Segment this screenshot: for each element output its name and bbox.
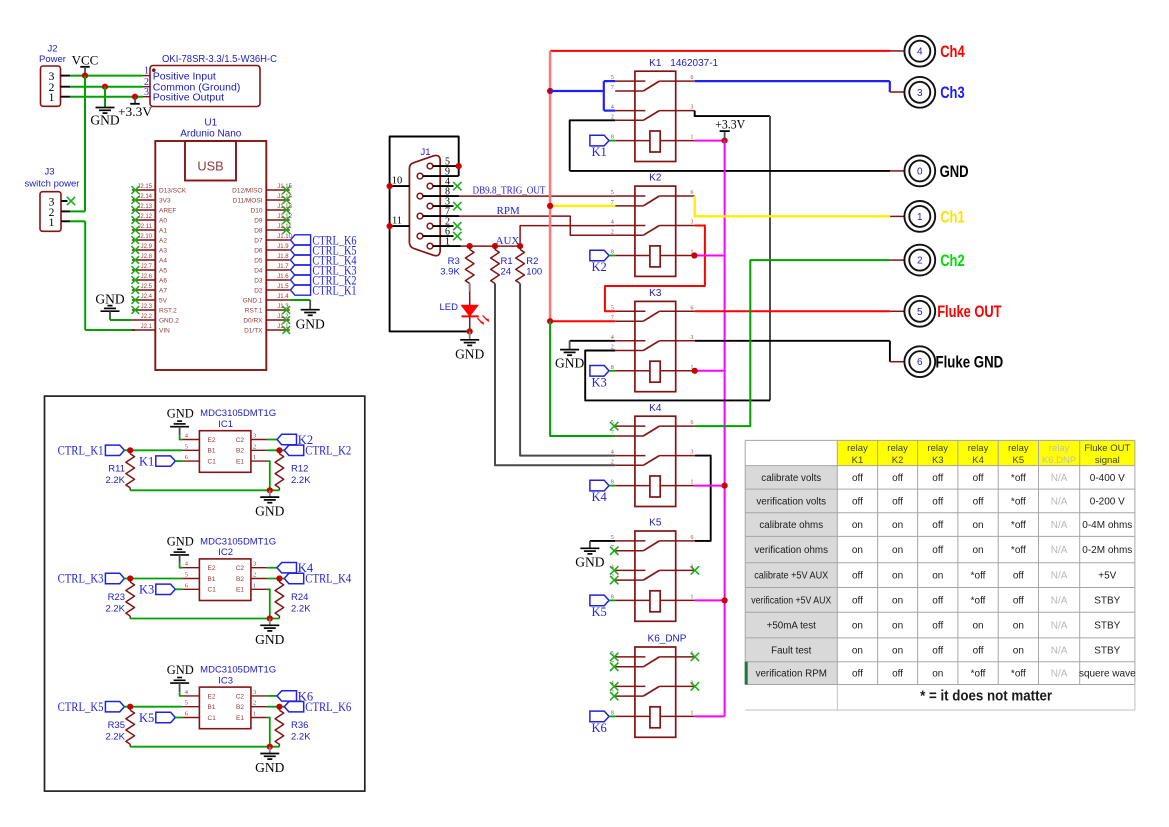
- svg-text:K2: K2: [592, 260, 607, 274]
- svg-text:3: 3: [253, 561, 256, 568]
- svg-text:3.9K: 3.9K: [440, 267, 460, 278]
- svg-text:on: on: [972, 545, 983, 556]
- wire K5 to IC3 pin 6: [175, 717, 182, 719]
- svg-text:1: 1: [445, 236, 450, 247]
- wire K6 pin 1 to +3.3V rail: [695, 715, 725, 717]
- svg-text:CTRL_K5: CTRL_K5: [58, 700, 104, 714]
- local label K6 at relay coil: [590, 711, 615, 735]
- no-connect X on K5 pin 2: [610, 576, 618, 584]
- svg-text:1: 1: [253, 582, 256, 589]
- svg-text:K6_DNP: K6_DNP: [648, 634, 687, 645]
- output connector 5 Fluke OUT: [904, 296, 1001, 327]
- svg-text:6: 6: [691, 305, 694, 311]
- svg-text:K1: K1: [592, 145, 607, 159]
- svg-text:J1.8: J1.8: [277, 254, 289, 260]
- wire IC1 pin 3 to K2: [267, 439, 277, 441]
- resistor R2 100: [516, 246, 542, 283]
- output connector 0 GND: [904, 156, 968, 187]
- U1 right pin J1.15 D12/MISO: [232, 184, 292, 195]
- no-connect X on K6 pin 7: [610, 663, 618, 671]
- ground symbol left of U1 (GND.2): [95, 291, 124, 320]
- svg-text:B2: B2: [236, 576, 244, 583]
- svg-text:C1: C1: [208, 459, 217, 466]
- relay K6_DNP box: [611, 634, 695, 738]
- svg-text:relay: relay: [887, 443, 908, 454]
- wire Ch4 net vertical rail: [549, 51, 552, 321]
- svg-text:on: on: [852, 621, 863, 632]
- svg-text:*off: *off: [1011, 496, 1026, 507]
- svg-text:4: 4: [611, 450, 614, 456]
- svg-text:Ardunio Nano: Ardunio Nano: [180, 129, 242, 140]
- svg-text:4: 4: [611, 105, 614, 111]
- svg-text:E2: E2: [208, 693, 216, 700]
- resistor R12 2.2K: [275, 450, 311, 490]
- wire J2 pin stubs: [61, 76, 71, 97]
- svg-text:verification volts: verification volts: [756, 496, 826, 507]
- ground symbol right of U1 (GND.1): [296, 300, 325, 332]
- svg-text:0-2M ohms: 0-2M ohms: [1082, 545, 1132, 556]
- svg-text:5V: 5V: [159, 297, 168, 304]
- svg-text:on: on: [972, 621, 983, 632]
- svg-text:24: 24: [501, 267, 512, 278]
- svg-text:STBY: STBY: [1094, 595, 1120, 606]
- U1 right pin J1.7 D4: [254, 264, 290, 275]
- svg-text:A4: A4: [159, 257, 167, 264]
- J1 pin 8: [417, 186, 459, 199]
- wire IC3 ground rail: [130, 746, 279, 748]
- ic IC3 MDC3105DMT1G: [182, 665, 276, 729]
- svg-text:C1: C1: [208, 587, 217, 594]
- svg-text:4: 4: [917, 47, 923, 58]
- svg-text:5: 5: [611, 190, 614, 196]
- junction CTRL_K3 node: [127, 575, 133, 581]
- svg-text:5: 5: [917, 307, 923, 318]
- svg-text:USB: USB: [197, 159, 223, 174]
- svg-text:on: on: [972, 520, 983, 531]
- power symbol +3.3V at J2: [118, 97, 152, 119]
- no-connect X on K4 pin 5: [610, 422, 618, 430]
- U1 right pin J1.1 D1/TX: [244, 324, 290, 335]
- svg-text:verification +5V AUX: verification +5V AUX: [751, 595, 831, 606]
- wire IC1 ground rail: [130, 489, 279, 491]
- wire R2 bottom to K4 pin 4: [520, 284, 615, 456]
- svg-text:C2: C2: [236, 693, 245, 700]
- resistor R35 2.2K: [105, 707, 134, 747]
- svg-text:11: 11: [392, 215, 402, 226]
- local label K2 at relay coil: [590, 250, 615, 274]
- svg-text:K4: K4: [972, 455, 984, 466]
- svg-text:+3.3V: +3.3V: [118, 105, 152, 119]
- svg-text:K3: K3: [139, 583, 154, 597]
- svg-text:2: 2: [253, 443, 256, 450]
- U1 left pin J2.10 A2: [132, 234, 168, 245]
- U1 left pin J2.9 A3: [132, 244, 168, 255]
- svg-text:verification ohms: verification ohms: [754, 545, 828, 556]
- svg-text:relay: relay: [1049, 443, 1070, 454]
- local label K1 at relay coil: [590, 135, 615, 159]
- svg-text:B1: B1: [208, 576, 216, 583]
- svg-text:J1.10: J1.10: [277, 234, 292, 240]
- svg-text:Ch1: Ch1: [940, 208, 965, 226]
- svg-text:A6: A6: [159, 277, 167, 284]
- svg-text:U1: U1: [204, 118, 217, 129]
- global label CTRL_K4 at U1: [290, 253, 357, 267]
- svg-text:D9: D9: [254, 217, 263, 224]
- svg-text:Fluke OUT: Fluke OUT: [937, 303, 1001, 321]
- svg-text:off: off: [892, 669, 903, 680]
- no-connect X on K6 pin 2: [610, 692, 618, 700]
- svg-text:signal: signal: [1095, 455, 1120, 466]
- J1 pin 5: [427, 156, 459, 169]
- wire K1 pin 2 to GND output: [570, 120, 616, 171]
- svg-text:relay: relay: [1008, 443, 1029, 454]
- svg-text:GND: GND: [575, 555, 604, 570]
- svg-text:N/A: N/A: [1051, 496, 1068, 507]
- wire K1 pin 1 to +3.3V: [695, 140, 725, 142]
- svg-text:K5: K5: [592, 605, 607, 619]
- relay K5 box: [611, 518, 695, 622]
- wire AUX from J1 pin 1 to K2 pin 4: [461, 226, 615, 247]
- svg-text:J1.4: J1.4: [277, 294, 289, 300]
- local label K3 at relay coil: [590, 366, 615, 390]
- svg-text:5: 5: [185, 443, 188, 450]
- junction CTRL_K2 node: [276, 447, 282, 453]
- svg-text:RST.1: RST.1: [245, 307, 263, 314]
- svg-text:C2: C2: [236, 437, 245, 444]
- svg-text:1: 1: [691, 711, 694, 717]
- U1 right pin J1.5 D2: [254, 284, 290, 295]
- svg-text:relay: relay: [968, 443, 989, 454]
- ic IC2 MDC3105DMT1G: [182, 536, 276, 600]
- J1 pin 9: [417, 166, 459, 179]
- svg-text:Ch4: Ch4: [940, 43, 965, 61]
- U1 right pin J1.3 RST.1: [245, 304, 290, 315]
- svg-text:J2.6: J2.6: [141, 274, 153, 280]
- svg-text:LED: LED: [440, 302, 459, 313]
- svg-text:4: 4: [611, 220, 614, 226]
- svg-text:D4: D4: [254, 267, 263, 274]
- wire CTRL_K5 to IC3 pin 5: [124, 706, 182, 708]
- U1 right pin J1.8 D5: [254, 254, 290, 265]
- svg-text:6: 6: [691, 190, 694, 196]
- svg-text:*off: *off: [1011, 545, 1026, 556]
- wire IC2 ground rail: [130, 618, 279, 620]
- U1 left pin J2.14 3V3: [132, 194, 171, 205]
- svg-text:IC2: IC2: [218, 547, 233, 558]
- wire J1 shell ground loop: [390, 137, 470, 332]
- svg-text:J1: J1: [420, 147, 430, 158]
- svg-text:K3: K3: [649, 288, 662, 299]
- svg-text:3V3: 3V3: [159, 197, 171, 204]
- svg-text:6: 6: [185, 582, 188, 589]
- svg-text:RPM: RPM: [497, 205, 520, 217]
- svg-text:on: on: [892, 545, 903, 556]
- U1 right pin J1.13 D10: [251, 204, 293, 215]
- junction K2 pin 1: [691, 252, 697, 258]
- svg-text:CTRL_K1: CTRL_K1: [58, 444, 104, 458]
- svg-text:N/A: N/A: [1051, 621, 1068, 632]
- wire ground to IC3 pin 4: [180, 683, 183, 696]
- junction AUX R3: [467, 243, 473, 249]
- svg-text:Ch3: Ch3: [940, 84, 965, 102]
- svg-text:Ch2: Ch2: [940, 252, 965, 270]
- wire green K3 junction down to K4 pin 7: [550, 321, 615, 436]
- wire IC1 pin 2 to CTRL_K2: [267, 449, 284, 451]
- junction CTRL_K5 node: [127, 704, 133, 710]
- svg-text:K1: K1: [139, 455, 154, 469]
- svg-text:off: off: [852, 473, 863, 484]
- U1 left pin J2.15 D13/SCK: [132, 184, 187, 195]
- U1 right pin J1.6 D3: [254, 274, 290, 285]
- ground symbol below IC2: [255, 619, 284, 647]
- U1 left pin J2.12 A0: [132, 214, 168, 225]
- junction GND at J2 pin 2: [102, 84, 108, 90]
- svg-text:E2: E2: [208, 437, 216, 444]
- svg-text:Fault test: Fault test: [771, 645, 812, 656]
- svg-text:2.2K: 2.2K: [291, 603, 311, 614]
- svg-text:OKI-78SR-3.3/1.5-W36H-C: OKI-78SR-3.3/1.5-W36H-C: [162, 54, 277, 65]
- svg-text:off: off: [932, 595, 943, 606]
- svg-text:VCC: VCC: [72, 52, 99, 67]
- svg-text:B2: B2: [236, 704, 244, 711]
- resistor R11 2.2K: [105, 450, 134, 490]
- svg-text:K6: K6: [592, 721, 607, 735]
- wire K2 pin 6 to output Ch1: [695, 196, 905, 216]
- svg-text:D10: D10: [251, 207, 263, 214]
- svg-text:Positive Output: Positive Output: [153, 91, 224, 103]
- junction J1 pin11: [387, 223, 393, 229]
- svg-text:AREF: AREF: [159, 207, 176, 214]
- wire K5 pin 5 to ground: [590, 540, 615, 542]
- wire CTRL_K3 to IC2 pin 5: [124, 578, 182, 580]
- table header row: [847, 443, 1130, 466]
- junction +3.3V rail top: [722, 138, 728, 144]
- svg-text:STBY: STBY: [1094, 621, 1120, 632]
- resistor R36 2.2K: [275, 707, 311, 747]
- svg-text:IC1: IC1: [218, 419, 233, 430]
- svg-text:D12/MISO: D12/MISO: [232, 187, 262, 194]
- svg-text:J3: J3: [44, 167, 54, 178]
- U1 left pin J2.8 A4: [132, 254, 168, 265]
- svg-text:E1: E1: [236, 459, 244, 466]
- junction AUX R1: [492, 243, 498, 249]
- svg-text:GND: GND: [167, 535, 194, 549]
- svg-text:J2.4: J2.4: [141, 294, 153, 300]
- svg-text:1: 1: [144, 66, 149, 77]
- table green highlight border: [745, 662, 748, 685]
- U1 left pin J2.4 5V: [132, 294, 168, 305]
- J1 pin 3: [427, 196, 461, 210]
- svg-text:relay: relay: [927, 443, 948, 454]
- svg-text:J2.8: J2.8: [141, 254, 153, 260]
- svg-text:GND: GND: [940, 163, 969, 181]
- svg-text:on: on: [932, 571, 943, 582]
- local label K2: [277, 433, 313, 447]
- svg-text:MDC3105DMT1G: MDC3105DMT1G: [200, 536, 276, 547]
- U1 left pin J2.2 GND.2: [132, 314, 179, 325]
- no-connect X on K6 pin 3: [691, 682, 699, 690]
- resistor R1 24: [491, 246, 513, 283]
- relay state table: [745, 440, 1135, 710]
- wire DB9.8_TRIG_OUT to K2 pin 5: [459, 195, 616, 197]
- wire ground to IC1 pin 4: [180, 427, 183, 440]
- junction IC2 ground rail: [267, 615, 273, 621]
- svg-text:off: off: [973, 473, 984, 484]
- connector J2 Power: [39, 44, 66, 107]
- ground symbol above IC2: [167, 535, 194, 555]
- global label CTRL_K1 at U1: [290, 283, 356, 297]
- svg-text:off: off: [1013, 595, 1024, 606]
- svg-text:J2.2: J2.2: [141, 314, 153, 320]
- svg-text:A5: A5: [159, 267, 167, 274]
- no-connect X on J3 pin 3: [67, 197, 75, 205]
- no-connect X on K6 pin 6: [691, 653, 699, 661]
- svg-text:GND: GND: [167, 407, 194, 421]
- svg-text:N/A: N/A: [1051, 645, 1068, 656]
- svg-text:K2: K2: [892, 455, 904, 466]
- connector J1 DB9: [409, 147, 440, 256]
- svg-text:relay: relay: [847, 443, 868, 454]
- svg-text:GND: GND: [455, 347, 484, 362]
- junction K5 pin 1 at rail: [722, 597, 728, 603]
- svg-text:GND: GND: [90, 113, 119, 128]
- svg-text:off: off: [932, 645, 943, 656]
- relay K2 box: [611, 173, 695, 277]
- J1 pin 1: [427, 236, 461, 249]
- U1 right pin J1.12 D9: [254, 214, 292, 225]
- svg-text:2.2K: 2.2K: [105, 603, 125, 614]
- svg-text:A2: A2: [159, 237, 167, 244]
- wire IC3 pin 1 to ground rail: [267, 718, 270, 747]
- output connector 2 Ch2: [904, 245, 964, 276]
- global label CTRL_K6 at U1: [290, 233, 356, 247]
- svg-text:1: 1: [49, 92, 55, 104]
- wire K2 pin 1 to +3.3V rail: [695, 255, 725, 257]
- global label CTRL_K2: [284, 444, 351, 458]
- ic IC1 MDC3105DMT1G: [182, 408, 276, 472]
- U1 right pin J1.14 D11/MOSI: [233, 194, 293, 205]
- wire K2 pin 3 to K3 pin 5: [605, 226, 705, 312]
- junction IC1 ground rail: [267, 487, 273, 493]
- svg-text:* = it does not matter: * = it does not matter: [920, 688, 1052, 705]
- svg-text:K4: K4: [649, 403, 662, 414]
- svg-text:N/A: N/A: [1051, 545, 1068, 556]
- wire CTRL_K1 to IC1 pin 5: [124, 449, 182, 451]
- wire K3 to IC2 pin 6: [175, 588, 182, 590]
- svg-text:1: 1: [691, 480, 694, 486]
- svg-text:1: 1: [253, 711, 256, 718]
- svg-text:3: 3: [253, 433, 256, 440]
- svg-text:DB9.8_TRIG_OUT: DB9.8_TRIG_OUT: [473, 186, 546, 197]
- svg-text:1462037-1: 1462037-1: [670, 58, 718, 69]
- svg-text:B1: B1: [208, 704, 216, 711]
- svg-text:off: off: [932, 621, 943, 632]
- ground symbol below IC1: [255, 490, 284, 518]
- svg-text:K3: K3: [932, 455, 944, 466]
- junction CTRL_K6 node: [276, 704, 282, 710]
- wire K1 pin 6 to output Ch3: [695, 81, 905, 92]
- no-connect X on K5 pin 3: [691, 566, 699, 574]
- svg-text:J2.5: J2.5: [141, 284, 153, 290]
- svg-text:J1.9: J1.9: [277, 244, 289, 250]
- svg-text:3: 3: [917, 88, 923, 99]
- svg-text:D7: D7: [254, 237, 263, 244]
- wire K4 pin 6 to output Ch2: [695, 260, 905, 426]
- power symbol +3.3V at K1: [715, 117, 745, 140]
- resistor R24 2.2K: [275, 579, 311, 619]
- svg-text:off: off: [892, 473, 903, 484]
- wire K3 pin 6 to output Fluke OUT: [695, 310, 905, 312]
- svg-text:3: 3: [144, 87, 149, 98]
- svg-text:VIN: VIN: [159, 327, 170, 334]
- svg-text:on: on: [852, 645, 863, 656]
- svg-text:CTRL_K1: CTRL_K1: [312, 283, 356, 297]
- svg-text:D5: D5: [254, 257, 263, 264]
- svg-text:5: 5: [185, 700, 188, 707]
- svg-text:STBY: STBY: [1094, 645, 1120, 656]
- LED D1: [440, 284, 490, 332]
- wire U1 GND.1 to ground: [290, 299, 311, 301]
- output connector 6 Fluke GND: [904, 346, 1003, 377]
- svg-text:off: off: [852, 595, 863, 606]
- U1 right pin J1.2 D0/RX: [243, 314, 290, 325]
- relay K1 box: [611, 58, 719, 162]
- OKI pin stubs and numbers: [143, 66, 150, 98]
- svg-text:B1: B1: [208, 448, 216, 455]
- global label CTRL_K5: [58, 700, 125, 714]
- wire stub into output 4: [890, 50, 904, 52]
- svg-text:J2.1: J2.1: [141, 324, 153, 330]
- junction AUX R2: [517, 243, 523, 249]
- svg-text:on: on: [892, 571, 903, 582]
- svg-text:6: 6: [691, 75, 694, 81]
- svg-text:D13/SCK: D13/SCK: [159, 187, 187, 194]
- svg-text:A3: A3: [159, 247, 167, 254]
- U1 left pin J2.7 A5: [132, 264, 168, 275]
- relay K4 box: [611, 403, 695, 507]
- svg-text:K5: K5: [139, 711, 154, 725]
- wire K3 pin 2 loop to Fluke GND net: [585, 351, 770, 401]
- junction K4 pin 1 at rail: [722, 483, 728, 489]
- J1 pin 4: [427, 176, 461, 190]
- svg-text:on: on: [892, 645, 903, 656]
- ground symbol below IC3: [255, 747, 284, 775]
- U1 left pin J2.6 A6: [132, 274, 168, 285]
- local label K1: [139, 455, 175, 469]
- svg-text:+5V: +5V: [1098, 571, 1116, 582]
- local label K3: [139, 583, 175, 597]
- U1 left pin J2.3 RST.2: [132, 304, 178, 315]
- wire K3 pin 3 to output Fluke GND: [695, 341, 905, 362]
- wire U1 GND.2 to ground: [110, 319, 132, 321]
- wire R1 bottom to K4 pin 2: [495, 284, 615, 466]
- U1 left pin J2.11 A1: [132, 224, 168, 235]
- svg-text:R1: R1: [501, 256, 513, 267]
- svg-text:on: on: [1013, 621, 1024, 632]
- svg-text:0-4M ohms: 0-4M ohms: [1082, 520, 1132, 531]
- svg-text:off: off: [932, 473, 943, 484]
- svg-text:A0: A0: [159, 217, 167, 224]
- svg-text:D3: D3: [254, 277, 263, 284]
- wire +3.3V magenta rail: [724, 141, 726, 717]
- svg-text:1: 1: [691, 135, 694, 141]
- svg-text:C1: C1: [208, 715, 217, 722]
- junction Ch4 rail at K1: [547, 88, 553, 94]
- ground symbol above IC3: [167, 663, 194, 683]
- ground symbol below LED: [455, 331, 484, 361]
- junction CTRL_K1 node: [127, 447, 133, 453]
- svg-text:7: 7: [611, 430, 614, 436]
